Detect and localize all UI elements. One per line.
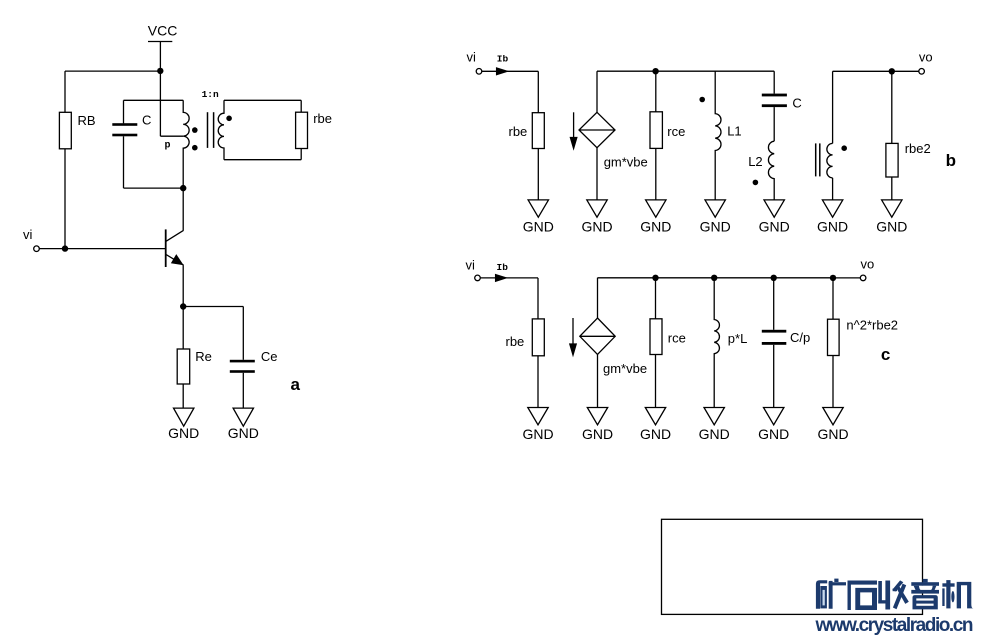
terminal vo (c) bbox=[860, 275, 866, 281]
wire emitter down bbox=[182, 265, 184, 306]
inductor xfmr winding (b) bbox=[827, 143, 833, 178]
wire gm source top (c) bbox=[597, 278, 599, 318]
wire xfmr bottom (b) bbox=[832, 178, 834, 200]
inductor p*L (c) bbox=[714, 278, 719, 408]
wire top rail (b) bbox=[597, 70, 774, 72]
terminal vi (c) bbox=[475, 275, 481, 281]
svg-text:VCC: VCC bbox=[148, 23, 178, 39]
ground Ce bbox=[233, 408, 253, 426]
ground L1 (b) bbox=[705, 200, 725, 217]
resistor rbe (c) bbox=[532, 319, 544, 356]
ground pL (c) bbox=[704, 408, 724, 425]
wire rce top (c) bbox=[655, 278, 657, 319]
svg-text:c: c bbox=[881, 345, 890, 364]
svg-text:b: b bbox=[946, 151, 956, 170]
svg-text:1:n: 1:n bbox=[202, 89, 219, 100]
wire top horizontal to RB bbox=[65, 70, 160, 72]
ground gm (c) bbox=[587, 408, 607, 425]
wire tank left lower bbox=[123, 136, 125, 188]
transistor Q1 emitter bbox=[166, 255, 184, 266]
node junction VCC bbox=[157, 68, 163, 74]
current source gm*vbe (c) bbox=[580, 318, 615, 355]
svg-text:C: C bbox=[142, 112, 151, 127]
svg-text:GND: GND bbox=[581, 219, 612, 235]
wire rbe bottom (c) bbox=[537, 356, 539, 408]
svg-text:vo: vo bbox=[861, 257, 875, 272]
svg-text:www.crystalradio.cn: www.crystalradio.cn bbox=[815, 615, 973, 636]
ground rce (c) bbox=[645, 408, 665, 425]
wire rbe2 bottom (b) bbox=[891, 177, 893, 200]
inductor secondary winding bbox=[218, 100, 224, 159]
wire VCC vertical bbox=[159, 42, 161, 137]
ground rbe (b) bbox=[528, 200, 548, 217]
wire rbe top (c) bbox=[537, 278, 539, 319]
ground rbe (c) bbox=[528, 408, 548, 425]
node junction rce (c) bbox=[652, 275, 658, 281]
node junction Cp (c) bbox=[771, 275, 777, 281]
wire Re bottom bbox=[182, 384, 184, 408]
svg-text:L2: L2 bbox=[748, 154, 762, 169]
svg-text:RB: RB bbox=[78, 113, 96, 128]
arrow Ib (c) bbox=[496, 275, 506, 282]
wire gm source top (b) bbox=[596, 71, 598, 112]
svg-text:rbe: rbe bbox=[506, 334, 525, 349]
svg-text:GND: GND bbox=[699, 426, 730, 442]
resistor rbe bbox=[296, 112, 308, 148]
wire rbe bottom (b) bbox=[537, 149, 539, 200]
ground Cp (c) bbox=[764, 408, 784, 425]
capacitor C/p (c) bbox=[762, 330, 787, 345]
phase dot primary lower bbox=[192, 145, 198, 151]
svg-text:GND: GND bbox=[817, 219, 848, 235]
svg-text:p: p bbox=[165, 140, 171, 151]
svg-text:GND: GND bbox=[876, 219, 907, 235]
wire RB top bbox=[64, 71, 66, 112]
node junction rce (b) bbox=[652, 68, 658, 74]
svg-text:GND: GND bbox=[759, 219, 790, 235]
svg-text:vo: vo bbox=[919, 50, 933, 65]
terminal vo (b) bbox=[919, 69, 925, 75]
wire gm source bottom (c) bbox=[597, 355, 599, 408]
resistor rbe2 (b) bbox=[886, 143, 898, 177]
svg-text:vi: vi bbox=[23, 227, 33, 242]
svg-text:gm*vbe: gm*vbe bbox=[604, 155, 648, 170]
watermark char shi (石) bbox=[848, 581, 878, 611]
node junction n2rbe2 (c) bbox=[830, 275, 836, 281]
wire vi to base bbox=[39, 248, 165, 250]
arrow Ib (b) bbox=[497, 68, 507, 75]
svg-text:vi: vi bbox=[467, 49, 477, 64]
phase dot L1 (b) bbox=[699, 97, 705, 103]
watermark char kuang (矿) bbox=[816, 579, 846, 609]
svg-text:GND: GND bbox=[582, 426, 613, 442]
ground rce (b) bbox=[646, 200, 666, 217]
box outline bbox=[662, 519, 923, 614]
resistor rce (c) bbox=[650, 319, 662, 355]
capacitor Ce bbox=[230, 360, 255, 373]
node junction vi-RB bbox=[62, 245, 68, 251]
svg-text:rce: rce bbox=[667, 124, 685, 139]
node junction pL (c) bbox=[711, 275, 717, 281]
transistor Q1 emitter arrow bbox=[172, 255, 182, 264]
svg-text:Ib: Ib bbox=[497, 54, 509, 65]
inductor L1 (b) bbox=[715, 71, 721, 200]
phase dot primary upper bbox=[192, 127, 198, 133]
ground Re bbox=[174, 408, 194, 426]
wire tank left upper bbox=[123, 100, 125, 123]
wire to vo (c) bbox=[833, 277, 860, 279]
wire rbe bottom bbox=[300, 149, 302, 160]
wire output rail (b) bbox=[833, 70, 919, 72]
transformer core bbox=[207, 112, 209, 148]
svg-text:rce: rce bbox=[668, 331, 686, 346]
resistor n^2*rbe2 (c) bbox=[828, 319, 840, 355]
wire tank top bbox=[124, 99, 184, 101]
capacitor C bbox=[112, 123, 137, 136]
svg-text:GND: GND bbox=[228, 425, 259, 441]
transformer core (b) bbox=[815, 143, 817, 176]
resistor Re bbox=[177, 349, 190, 384]
wire Cp bottom (c) bbox=[773, 345, 775, 408]
svg-text:rbe2: rbe2 bbox=[905, 141, 931, 156]
wire secondary top bbox=[224, 99, 301, 101]
ground gm (b) bbox=[587, 200, 607, 217]
phase dot secondary bbox=[226, 116, 232, 122]
inductor primary winding bbox=[183, 100, 189, 230]
wire Ce bottom bbox=[242, 373, 244, 408]
watermark char ji (机) bbox=[942, 580, 973, 608]
wire xfmr top (b) bbox=[832, 71, 834, 143]
current source gm*vbe (b) bbox=[579, 112, 615, 147]
svg-text:GND: GND bbox=[758, 426, 789, 442]
svg-text:Re: Re bbox=[195, 349, 212, 364]
VCC supply bar bbox=[148, 41, 172, 43]
phase dot xfmr (b) bbox=[841, 145, 847, 151]
wire rce top (b) bbox=[655, 71, 657, 112]
svg-text:C/p: C/p bbox=[790, 330, 810, 345]
svg-text:gm*vbe: gm*vbe bbox=[603, 361, 647, 376]
node junction emitter bbox=[180, 303, 186, 309]
wire Cp top (c) bbox=[773, 278, 775, 330]
wire C top (b) bbox=[773, 71, 775, 93]
wire vi to rbe (b) bbox=[482, 70, 539, 72]
svg-text:GND: GND bbox=[817, 426, 848, 442]
resistor RB bbox=[59, 112, 71, 149]
ground rbe2 (b) bbox=[882, 200, 902, 217]
wire secondary bottom bbox=[224, 159, 301, 161]
inductor L2 (b) bbox=[768, 141, 774, 200]
wire Ce top bbox=[242, 307, 244, 360]
wire rce bottom (b) bbox=[655, 148, 657, 200]
wire top rail (c) bbox=[598, 277, 834, 279]
wire tap bbox=[160, 135, 183, 137]
node junction collector-tank bbox=[180, 185, 186, 191]
svg-text:GND: GND bbox=[640, 426, 671, 442]
svg-text:p*L: p*L bbox=[728, 331, 748, 346]
resistor rce (b) bbox=[650, 112, 662, 149]
svg-text:rbe: rbe bbox=[313, 111, 332, 126]
svg-text:GND: GND bbox=[700, 219, 731, 235]
phase dot L2 (b) bbox=[753, 180, 759, 186]
terminal vi bbox=[34, 246, 40, 252]
svg-text:L1: L1 bbox=[727, 124, 741, 139]
ground xfmr (b) bbox=[822, 200, 842, 217]
wire rbe2 top (b) bbox=[891, 71, 893, 143]
ground n2rbe2 (c) bbox=[823, 408, 843, 425]
arrow gm (c) bbox=[572, 318, 574, 347]
wire RB bottom bbox=[64, 149, 66, 249]
transistor Q1 collector bbox=[166, 230, 184, 241]
svg-text:GND: GND bbox=[640, 219, 671, 235]
svg-text:n^2*rbe2: n^2*rbe2 bbox=[846, 318, 898, 333]
svg-text:rbe: rbe bbox=[509, 124, 528, 139]
arrow gm (b) bbox=[573, 112, 575, 140]
svg-text:Ib: Ib bbox=[497, 262, 509, 273]
watermark char yin (音) bbox=[911, 579, 939, 610]
node junction rbe2 (b) bbox=[889, 68, 895, 74]
svg-text:GND: GND bbox=[168, 425, 199, 441]
svg-text:GND: GND bbox=[522, 426, 553, 442]
transistor Q1 base bar bbox=[165, 229, 167, 267]
wire gm source bottom (b) bbox=[596, 148, 598, 200]
wire n2rbe2 bottom (c) bbox=[832, 356, 834, 408]
wire C to L2 (b) bbox=[773, 107, 775, 141]
wire emitter to Ce bbox=[183, 306, 243, 308]
watermark char shou (收) bbox=[878, 580, 909, 609]
wire vi to rbe (c) bbox=[480, 277, 538, 279]
terminal vi (b) bbox=[476, 69, 482, 75]
wire rbe top bbox=[300, 100, 302, 112]
svg-text:vi: vi bbox=[466, 258, 476, 273]
ground L2 (b) bbox=[764, 200, 784, 217]
svg-text:C: C bbox=[792, 95, 801, 110]
resistor rbe (b) bbox=[532, 113, 544, 149]
wire n2rbe2 top (c) bbox=[832, 278, 834, 319]
wire tank bottom bbox=[124, 187, 184, 189]
wire rce bottom (c) bbox=[655, 355, 657, 408]
svg-text:a: a bbox=[291, 375, 301, 394]
capacitor C (b) bbox=[762, 94, 787, 108]
svg-text:GND: GND bbox=[523, 219, 554, 235]
wire rbe top (b) bbox=[537, 71, 539, 112]
wire Re top bbox=[182, 307, 184, 350]
svg-text:Ce: Ce bbox=[261, 349, 278, 364]
